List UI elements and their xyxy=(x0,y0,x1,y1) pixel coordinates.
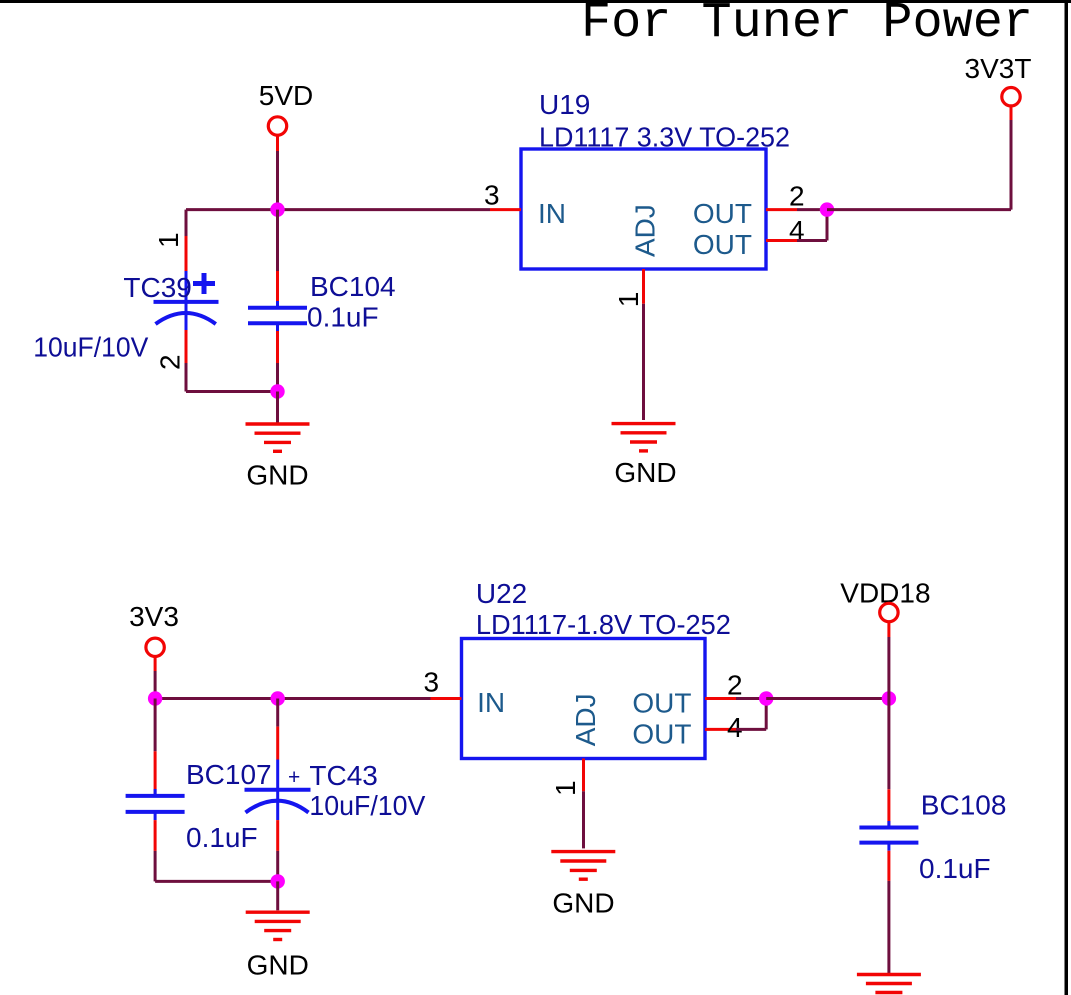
sheet border right xyxy=(1065,0,1069,995)
ground GND (U19 ADJ) xyxy=(612,424,677,489)
power terminal 3V3 xyxy=(129,601,179,671)
U19 pin 3 stub xyxy=(490,208,521,211)
svg-text:OUT: OUT xyxy=(632,719,691,750)
svg-text:1: 1 xyxy=(153,232,184,248)
ground GND (U22 ADJ) xyxy=(551,852,615,919)
wire node to U19 IN xyxy=(278,208,491,211)
junction node gnd top circuit xyxy=(270,384,284,398)
wire 3V3 down to node xyxy=(154,671,157,699)
U22 pin 1 stub (ADJ) xyxy=(582,759,585,792)
power terminal 3V3T xyxy=(965,53,1032,120)
svg-text:GND: GND xyxy=(614,457,676,488)
wire node down to ground xyxy=(276,392,279,423)
wire pin4 right xyxy=(797,239,827,242)
junction node VDD18 xyxy=(882,691,896,705)
junction node TC43 top xyxy=(271,691,285,705)
junction node 3V3 xyxy=(148,691,162,705)
wire U22 pin4 up to out node xyxy=(765,699,768,730)
svg-text:TC43: TC43 xyxy=(309,760,377,791)
capacitor TC43 xyxy=(245,699,311,882)
svg-text:BC107: BC107 xyxy=(186,759,272,790)
wire out node to 3V3T corner xyxy=(827,208,1011,211)
capacitor TC39 xyxy=(154,210,219,392)
svg-text:2: 2 xyxy=(155,354,186,370)
wire U22 pin2 to out node xyxy=(736,697,766,700)
sheet border top xyxy=(0,0,1071,3)
wire node TC43 to U22 IN xyxy=(278,697,431,700)
capacitor BC104 xyxy=(248,210,307,392)
capacitor BC107 xyxy=(126,699,185,882)
capacitor BC108 xyxy=(859,699,918,974)
svg-text:For Tuner Power: For Tuner Power xyxy=(581,0,1033,52)
svg-text:3: 3 xyxy=(424,666,440,697)
svg-text:BC104: BC104 xyxy=(310,271,396,302)
svg-text:ADJ: ADJ xyxy=(629,204,660,257)
svg-text:ADJ: ADJ xyxy=(570,693,601,746)
wire U22 pin4 right xyxy=(736,728,766,731)
svg-text:GND: GND xyxy=(552,888,614,919)
junction node 5VD xyxy=(270,202,284,216)
ground GND (below BC108) xyxy=(857,975,921,993)
svg-text:5VD: 5VD xyxy=(259,80,313,111)
svg-text:1: 1 xyxy=(613,292,644,308)
U19 pin 1 stub (ADJ) xyxy=(642,269,645,304)
wire node to TC39 top xyxy=(186,208,278,211)
svg-text:3V3T: 3V3T xyxy=(965,53,1032,84)
svg-text:1: 1 xyxy=(550,780,581,796)
svg-text:OUT: OUT xyxy=(693,229,752,260)
wire node 3V3 to node TC43 xyxy=(155,697,278,700)
svg-text:3: 3 xyxy=(484,179,500,210)
wire VDD18 riser xyxy=(887,637,890,699)
wire out node to VDD18 node xyxy=(766,697,889,700)
svg-text:OUT: OUT xyxy=(693,198,752,229)
svg-text:0.1uF: 0.1uF xyxy=(919,853,991,884)
svg-text:10uF/10V: 10uF/10V xyxy=(33,331,148,362)
U22 pin 2 stub xyxy=(705,697,736,700)
wire 5VD down to node xyxy=(276,151,279,210)
wire BC107 bottom to gnd node xyxy=(155,880,278,883)
U22 pin 4 stub xyxy=(705,728,736,731)
junction out node U19 xyxy=(820,202,834,216)
power terminal 5VD xyxy=(259,80,313,151)
U19 pin 4 stub xyxy=(766,239,797,242)
svg-text:0.1uF: 0.1uF xyxy=(307,301,379,332)
junction out node U22 xyxy=(759,691,773,705)
svg-text:IN: IN xyxy=(538,198,566,229)
svg-text:LD1117 3.3V TO-252: LD1117 3.3V TO-252 xyxy=(539,122,790,153)
svg-text:IN: IN xyxy=(477,687,505,718)
op-amp U19 body xyxy=(521,149,766,269)
U22 pin 3 stub xyxy=(431,697,462,700)
svg-text:OUT: OUT xyxy=(632,688,691,719)
svg-text:10uF/10V: 10uF/10V xyxy=(309,790,425,821)
svg-text:0.1uF: 0.1uF xyxy=(186,822,258,853)
wire U22 ADJ to ground xyxy=(582,791,585,848)
svg-text:U19: U19 xyxy=(539,89,590,120)
svg-text:GND: GND xyxy=(247,950,309,981)
power terminal VDD18 xyxy=(840,578,930,638)
wire 3V3T riser xyxy=(1010,120,1013,210)
wire U19 ADJ to ground xyxy=(642,304,645,420)
svg-text:4: 4 xyxy=(727,712,743,743)
wire pin4 up to out node xyxy=(826,210,829,241)
svg-text:LD1117-1.8V TO-252: LD1117-1.8V TO-252 xyxy=(476,609,731,640)
svg-text:U22: U22 xyxy=(476,578,527,609)
wire TC39 bottom to gnd node xyxy=(186,390,278,393)
svg-text:+: + xyxy=(288,766,300,789)
svg-text:TC39: TC39 xyxy=(123,272,191,303)
wire node down to ground xyxy=(276,881,279,910)
wire pin2 to out node xyxy=(797,208,827,211)
svg-text:BC108: BC108 xyxy=(921,790,1007,821)
ground GND (below BC104) xyxy=(246,424,310,491)
junction node gnd bottom circuit xyxy=(271,874,285,888)
svg-text:2: 2 xyxy=(727,670,743,701)
svg-text:2: 2 xyxy=(789,181,805,212)
svg-text:GND: GND xyxy=(246,460,308,491)
svg-text:3V3: 3V3 xyxy=(129,601,179,632)
op-amp U22 body xyxy=(462,639,706,759)
U19 pin 2 stub xyxy=(766,208,797,211)
ground GND (below TC43) xyxy=(246,912,310,980)
